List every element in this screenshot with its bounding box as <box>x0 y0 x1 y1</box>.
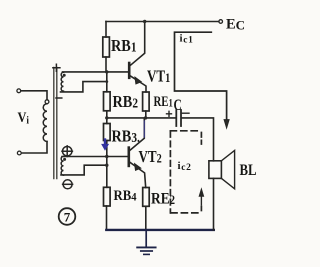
node dots <box>143 20 146 23</box>
circled figure number 7 <box>59 208 76 225</box>
input terminal bottom <box>17 151 21 155</box>
wire RB2 bottom <box>106 111 108 124</box>
wire secondary top L-link <box>61 82 107 92</box>
svg-text:VT1: VT1 <box>147 68 170 86</box>
wire input top <box>21 91 47 100</box>
svg-text:C: C <box>174 97 182 114</box>
resistor RB2 <box>104 92 111 111</box>
wire mid rail <box>107 117 175 119</box>
resistor RE1 <box>143 92 150 111</box>
wire bus RB3-RB4 <box>106 141 108 188</box>
minus mark secondary top <box>56 97 62 99</box>
svg-text:EC: EC <box>226 17 245 33</box>
svg-text:VT2: VT2 <box>139 149 162 167</box>
wire bottom rail <box>106 229 214 231</box>
resistor RB3 <box>104 124 111 141</box>
primary polarity circle <box>45 100 49 104</box>
resistor RB1 <box>103 37 110 57</box>
terminal EC circle <box>219 20 223 24</box>
plus circled secondary bottom <box>62 146 72 157</box>
wire RB1 bottom <box>105 57 107 72</box>
input terminal top <box>17 89 21 93</box>
wire VT2 collector blue tint <box>143 121 145 137</box>
wire input bottom <box>21 142 47 154</box>
ground <box>137 230 155 255</box>
wire cap to speaker <box>182 118 214 161</box>
wire secondary bottom L-link <box>61 165 107 175</box>
capacitor C <box>176 110 181 126</box>
wire RE2 bottom <box>145 206 147 230</box>
svg-text:RE2: RE2 <box>151 190 175 207</box>
svg-text:RB1: RB1 <box>111 37 136 55</box>
current loop ic1 <box>175 32 227 120</box>
transformer primary coil <box>43 104 47 142</box>
wire RE1 bottom <box>145 111 147 118</box>
plus mark secondary top <box>53 64 60 71</box>
wire base bus VT1 <box>63 71 129 73</box>
arrowhead ic1 <box>224 120 229 128</box>
resistor RE2 <box>143 188 150 207</box>
wire top rail EC <box>106 21 219 23</box>
secondary coil bottom <box>61 156 63 175</box>
wire RB4 bottom <box>106 206 108 230</box>
transformer core <box>54 68 57 179</box>
capacitor minus <box>182 112 189 114</box>
svg-text:7: 7 <box>64 210 71 225</box>
svg-text:RB3.: RB3. <box>112 127 140 145</box>
svg-text:RB2: RB2 <box>113 93 138 111</box>
arrowhead ic2 up arrow <box>200 196 202 206</box>
wire speaker bottom <box>213 178 215 230</box>
blue scan artifact arrow below RB3 <box>102 140 109 151</box>
wire bus RB1-RB2 <box>106 72 108 92</box>
current loop ic2 dashed box <box>170 130 201 132</box>
transistor VT1 <box>129 22 146 93</box>
wire base bus VT2 <box>62 156 128 158</box>
capacitor plus <box>167 111 172 116</box>
svg-text:BL: BL <box>240 162 257 180</box>
resistor RB4 <box>104 187 111 206</box>
speaker BL <box>209 150 235 188</box>
minus circled secondary bottom <box>63 180 73 189</box>
wire RB1 top drop <box>105 22 107 38</box>
secondary coil top <box>61 72 63 91</box>
transistor VT2 <box>129 118 146 188</box>
